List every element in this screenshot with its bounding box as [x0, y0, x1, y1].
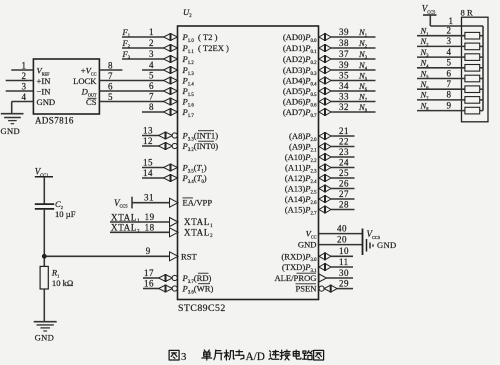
U2 pin 28 IO symbol (P2.7)	[319, 206, 331, 213]
svg-text:15: 15	[143, 157, 153, 167]
wire F1 to U2 pin 1	[122, 36, 164, 38]
svg-text:35: 35	[339, 70, 349, 80]
svg-text:31: 31	[144, 193, 154, 203]
svg-text:25: 25	[339, 168, 349, 178]
U2 pin 16 IO symbol with bubble	[159, 285, 173, 292]
svg-text:9: 9	[447, 100, 452, 110]
wire C2 to node	[43, 209, 45, 267]
wire U1 pin7 to U2 P1.4	[99, 80, 163, 82]
U2 pin 30 output symbol ALE/PROG	[319, 274, 327, 282]
wire stub U2 P3.1	[331, 266, 353, 268]
wire net N4 to RP pin 5	[417, 67, 465, 69]
RP resistor element 1	[465, 32, 480, 39]
U2 pin 26 IO symbol (P2.5)	[319, 185, 331, 192]
RP resistor element 3	[465, 54, 480, 61]
RP resistor element 6	[465, 86, 480, 93]
wire VCC1 to C2	[43, 177, 45, 204]
wire stub U2 pin 16	[143, 288, 159, 290]
svg-text:11: 11	[339, 257, 349, 267]
svg-text:GND: GND	[37, 97, 56, 107]
U2 pin 21 IO symbol (P2.0)	[319, 133, 331, 140]
wire U1 pin5 to U2 P1.6	[99, 101, 163, 103]
svg-text:3: 3	[22, 82, 27, 92]
svg-text:PSEN: PSEN	[295, 284, 317, 294]
wire stub U2 P2.5	[331, 188, 355, 190]
svg-text:8: 8	[108, 61, 113, 71]
wire stub U2 pin 17	[143, 277, 159, 279]
svg-text:4: 4	[149, 60, 154, 70]
wire U2 P0.7 to net N8	[331, 111, 376, 113]
wire net N7 to RP pin 8	[417, 99, 465, 101]
svg-text:4: 4	[447, 47, 452, 57]
wire stub U2 P2.4	[331, 177, 355, 179]
U2 pin 29 symbol PSEN with bubble	[319, 286, 324, 291]
U2 pin 8 IO symbol	[164, 109, 178, 116]
RP resistor element 7	[465, 97, 480, 104]
wire stub U2 ALE/PROG	[327, 277, 354, 279]
wire U1 pin2	[6, 80, 34, 82]
wire stub U2 pin 15	[142, 167, 164, 169]
U2 pin 33 IO symbol (P0.6)	[319, 98, 331, 105]
svg-text:37: 37	[339, 49, 349, 59]
wire stub U2 P2.7	[331, 209, 355, 211]
wire net N2 to RP pin 3	[417, 45, 465, 47]
svg-text:5: 5	[447, 58, 452, 68]
svg-text:10 kΩ: 10 kΩ	[52, 278, 73, 288]
svg-text:16: 16	[144, 278, 154, 288]
svg-text:+IN: +IN	[37, 76, 52, 86]
U2 pin 17 IO symbol with bubble	[159, 275, 173, 282]
power port VCC5 at pin 40	[362, 229, 364, 256]
resistor network RP body 8R	[462, 17, 489, 122]
U2 pin 5 IO symbol	[164, 77, 178, 84]
svg-text:9: 9	[146, 246, 151, 256]
U2 pin 15 IO symbol	[164, 164, 178, 171]
wire VCC5 down to RP pin 1	[429, 15, 431, 26]
wire RP element 6 to bus	[480, 88, 483, 90]
wire RP element 3 to bus	[480, 56, 483, 58]
ground (reset circuit)	[34, 321, 57, 323]
wire net N1 to RP pin 2	[417, 35, 465, 37]
wire stub U2 P2.1	[331, 146, 355, 148]
wire U2 P0.4 to net N5	[331, 80, 376, 82]
wire U2 P0.0 to net N1	[331, 36, 376, 38]
svg-text:A/D: A/D	[246, 351, 265, 363]
svg-text:38: 38	[339, 38, 349, 48]
U2 pin 9 input symbol	[170, 252, 179, 261]
svg-text:21: 21	[339, 126, 349, 136]
svg-text:EA/VPP: EA/VPP	[183, 198, 213, 208]
caption: figure 3 MCU and A/D connection diagram (vector CJK)	[169, 350, 179, 360]
wire stub U2 pin 12	[142, 145, 159, 147]
svg-text:GND: GND	[35, 333, 55, 343]
wire U1 pin1	[11, 69, 33, 71]
svg-text:7: 7	[447, 79, 452, 89]
U2 pin 3 IO symbol	[164, 56, 178, 63]
wire U1 pin6 to U2 P1.5	[99, 90, 163, 92]
svg-text:ALE/PROG: ALE/PROG	[274, 273, 316, 283]
svg-text:27: 27	[339, 189, 349, 199]
U2 pin 39 IO symbol (P0.3)	[319, 67, 331, 74]
svg-text:6: 6	[108, 82, 113, 92]
svg-text:ADS7816: ADS7816	[35, 116, 74, 126]
wire RC node to U2 pin 9 RST	[44, 255, 169, 257]
svg-text:6: 6	[149, 81, 154, 91]
ground (ADS7816 GND)	[1, 113, 24, 115]
RP common bus	[482, 26, 484, 111]
RP resistor element 5	[465, 75, 480, 82]
svg-text:GND: GND	[298, 240, 317, 250]
wire net N5 to RP pin 6	[417, 78, 465, 80]
U2 pin 19 input symbol	[170, 218, 179, 227]
svg-text:3: 3	[447, 36, 452, 46]
IC U2 STC89C52 body	[178, 26, 319, 300]
wire RP element 4 to bus	[480, 67, 483, 69]
svg-text:10: 10	[339, 246, 349, 256]
U2 pin 4 IO symbol	[164, 67, 178, 74]
svg-text:5: 5	[149, 70, 154, 80]
RP resistor element 4	[465, 65, 480, 72]
ground (U2 pin 20, sideways)	[366, 239, 368, 252]
svg-text:18: 18	[145, 223, 155, 233]
svg-text:2: 2	[22, 71, 27, 81]
svg-text:39: 39	[339, 60, 349, 70]
U2 pin 7 IO symbol	[164, 98, 178, 105]
svg-text:17: 17	[144, 268, 154, 278]
svg-text:2: 2	[149, 38, 154, 48]
svg-text:−IN: −IN	[37, 87, 52, 97]
wire stub U2 PSEN	[337, 288, 353, 290]
svg-text:22: 22	[339, 136, 349, 146]
U2 pin 24 IO symbol (P2.3)	[319, 164, 331, 171]
U2 pin 6 IO symbol	[164, 88, 178, 95]
wire U2 P0.3 to net N4	[331, 69, 376, 71]
U2 pin 35 IO symbol (P0.4)	[319, 77, 331, 84]
svg-text:3: 3	[149, 49, 154, 59]
U2 pin 38 IO symbol (P0.1)	[319, 45, 331, 52]
wire U1 pin4 to ground	[12, 101, 34, 103]
svg-text:26: 26	[339, 178, 349, 188]
wire stub U2 P2.0	[331, 135, 355, 137]
wire U2 pin 40 VCC	[319, 233, 362, 235]
svg-text:20: 20	[337, 234, 347, 244]
node junction (RST)	[42, 254, 47, 259]
wire stub U2 pin 13	[142, 135, 159, 137]
wire U1 pin8 stub	[99, 69, 122, 71]
svg-text:6: 6	[447, 68, 452, 78]
svg-text:3: 3	[181, 351, 186, 363]
wire RP element 2 to bus	[480, 45, 483, 47]
wire U2 pin 20 GND	[319, 244, 362, 246]
U2 pin 2 IO symbol	[164, 45, 178, 52]
wire U2 P0.2 to net N3	[331, 58, 376, 60]
svg-text:4: 4	[22, 92, 27, 102]
svg-text:7: 7	[108, 71, 113, 81]
wire stub U2 P3.0	[331, 255, 353, 257]
U2 pin 31 input symbol	[170, 198, 179, 207]
svg-text:7: 7	[149, 91, 154, 101]
U2 pin 11 IO symbol (P3.1)	[319, 264, 331, 271]
wire RP element 5 to bus	[480, 78, 483, 80]
svg-text:32: 32	[339, 102, 349, 112]
svg-text:19: 19	[145, 212, 155, 222]
svg-text:1: 1	[449, 16, 454, 26]
svg-text:8 R: 8 R	[461, 8, 473, 18]
svg-text:30: 30	[339, 268, 349, 278]
U2 pin 23 IO symbol (P2.2)	[319, 154, 331, 161]
wire stub U2 P2.6	[331, 198, 355, 200]
wire F2 to U2 pin 2	[122, 47, 164, 49]
svg-text:33: 33	[339, 91, 349, 101]
wire U2 P0.5 to net N6	[331, 90, 376, 92]
wire net N6 to RP pin 7	[417, 88, 465, 90]
wire F3 to U2 pin 3	[122, 58, 164, 60]
wire RP element 7 to bus	[480, 99, 483, 101]
wire XTAL2 to U2 pin 18	[110, 231, 170, 233]
U2 pin 1 IO symbol	[164, 34, 178, 41]
svg-text:5: 5	[108, 92, 113, 102]
RP resistor element 8	[465, 107, 480, 114]
RP resistor element 2	[465, 43, 480, 50]
svg-text:GND: GND	[377, 240, 397, 250]
svg-text:12: 12	[143, 136, 153, 146]
IC U1 ADS7816 body	[33, 59, 99, 114]
U2 pin 14 IO symbol	[164, 175, 178, 182]
svg-text:39: 39	[339, 27, 349, 37]
U2 pin 34 IO symbol (P0.5)	[319, 88, 331, 95]
svg-text:34: 34	[339, 81, 349, 91]
svg-text:8: 8	[447, 90, 452, 100]
wire U2 P0.1 to net N2	[331, 47, 376, 49]
U2 pin 27 IO symbol (P2.6)	[319, 196, 331, 203]
capacitor C2	[35, 203, 54, 205]
svg-text:24: 24	[339, 157, 349, 167]
wire RP element 1 to bus	[480, 35, 483, 37]
svg-text:1: 1	[22, 61, 27, 71]
svg-text:LOCK: LOCK	[73, 76, 97, 86]
svg-text:40: 40	[337, 223, 347, 233]
wire R1 to ground	[43, 289, 45, 322]
wire XTAL1 to U2 pin 19	[110, 221, 170, 223]
wire U1 pin3	[6, 90, 34, 92]
svg-text:STC89C52: STC89C52	[178, 303, 226, 314]
svg-text:29: 29	[339, 278, 349, 288]
wire stub U2 pin 14	[142, 177, 164, 179]
svg-text:14: 14	[143, 168, 153, 178]
wire stub U2 pin 4	[142, 69, 164, 71]
svg-text:RST: RST	[181, 251, 198, 261]
svg-text:GND: GND	[1, 126, 21, 136]
U2 pin 10 IO symbol (P3.0)	[319, 253, 331, 260]
U2 pin 39 IO symbol (P0.0)	[319, 34, 331, 41]
svg-text:13: 13	[143, 125, 153, 135]
wire net N8 to RP pin 9	[417, 110, 465, 112]
svg-text:23: 23	[339, 147, 349, 157]
wire net N3 to RP pin 4	[417, 56, 465, 58]
svg-text:28: 28	[339, 199, 349, 209]
wire RP pin 1 row	[430, 25, 483, 27]
wire stub U2 P2.2	[331, 156, 355, 158]
wire stub U2 P2.3	[331, 167, 355, 169]
U2 pin 25 IO symbol (P2.4)	[319, 175, 331, 182]
U2 pin 37 IO symbol (P0.2)	[319, 56, 331, 63]
svg-text:10 µF: 10 µF	[55, 209, 76, 219]
U2 pin 18 input symbol	[170, 228, 179, 237]
U2 pin 32 IO symbol (P0.7)	[319, 109, 331, 116]
resistor R1	[40, 266, 48, 289]
wire VCC5 to U2 pin 31	[132, 202, 170, 204]
wire U2 P0.6 to net N7	[331, 101, 376, 103]
svg-text:1: 1	[149, 27, 154, 37]
U2 pin 12 IO symbol with bubble	[159, 143, 173, 150]
wire stub U2 pin 8	[142, 111, 164, 113]
wire RP element 8 to bus	[480, 110, 483, 112]
svg-text:8: 8	[149, 102, 154, 112]
U2 pin 22 IO symbol (P2.1)	[319, 143, 331, 150]
U2 pin 13 IO symbol with bubble	[159, 132, 173, 139]
svg-text:2: 2	[447, 26, 452, 36]
